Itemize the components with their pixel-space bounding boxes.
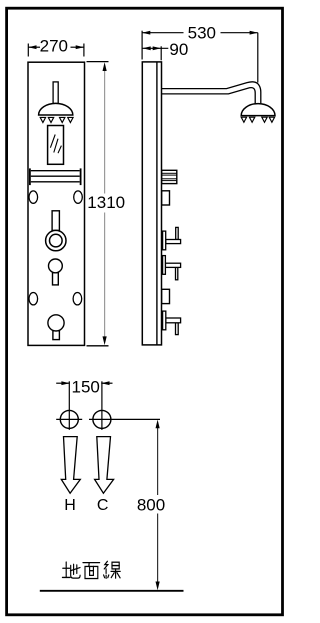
body jet upper-right: [74, 191, 83, 203]
control knob double circle: [46, 230, 66, 250]
side knob A: [162, 191, 170, 205]
front panel outline: [28, 62, 85, 345]
ground line: [40, 590, 184, 592]
middle knob: [49, 259, 63, 285]
shower arm: [162, 82, 261, 104]
dimension 1310: [87, 62, 126, 346]
dimension 270: [28, 37, 84, 57]
shower head (side view): [241, 104, 275, 123]
body jet lower-left: [29, 293, 38, 305]
glyph 地: [62, 562, 80, 578]
hot supply fitting: [56, 381, 82, 430]
body jet lower-right: [73, 293, 82, 305]
towel bar (side view): [162, 170, 177, 183]
side lever 1 (tip up): [163, 227, 181, 249]
svg-text:150: 150: [72, 377, 100, 396]
bottom knob: [48, 315, 64, 340]
hot flow arrow: [61, 437, 80, 494]
glyph 面: [83, 563, 100, 579]
glyph 線: [104, 561, 121, 578]
mirror: [48, 126, 64, 165]
body jet upper-left: [29, 191, 38, 203]
svg-text:C: C: [97, 497, 109, 514]
side knob B: [162, 289, 170, 303]
cold supply fitting: [89, 381, 160, 430]
dimension 90: [142, 40, 188, 60]
side panel outline: [142, 62, 161, 345]
text 地面線 (ground line label): [62, 561, 120, 578]
svg-text:H: H: [64, 497, 76, 514]
svg-text:1310: 1310: [87, 193, 125, 212]
svg-text:530: 530: [188, 23, 216, 42]
side lever 3 (tip down): [163, 311, 181, 334]
svg-text:270: 270: [40, 37, 68, 56]
dimension 150: [56, 377, 112, 396]
side lever 2 (tip down): [163, 256, 181, 280]
svg-text:800: 800: [137, 496, 165, 515]
dimension 530: [142, 23, 258, 82]
cold flow arrow: [95, 437, 114, 494]
shower head (front view): [39, 82, 74, 123]
towel bar (front view): [30, 168, 81, 185]
diverter stem: [52, 211, 59, 231]
svg-text:90: 90: [169, 40, 188, 59]
dimension 800: [137, 420, 165, 591]
